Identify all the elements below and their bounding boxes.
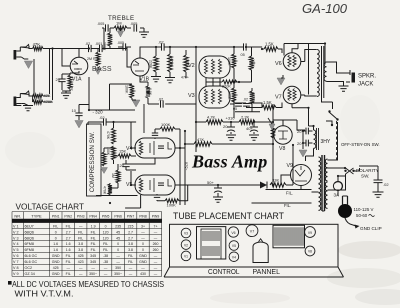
capacitor .02 comp xyxy=(102,118,136,125)
svg-text:20: 20 xyxy=(56,77,61,82)
svg-text:2.2K: 2.2K xyxy=(70,83,74,91)
power cord xyxy=(345,218,356,226)
power transformer primary xyxy=(319,157,321,210)
label COMPRESSION SW. xyxy=(89,131,96,192)
svg-text:SPKR.: SPKR. xyxy=(358,74,376,80)
svg-text:425: 425 xyxy=(78,254,84,258)
label .05 low xyxy=(233,107,237,111)
label FIL 1 xyxy=(286,191,293,196)
svg-text:-38: -38 xyxy=(103,260,108,264)
label 50-60 xyxy=(356,213,375,218)
svg-text:V6: V6 xyxy=(275,61,282,67)
capacitor 40 B+ xyxy=(250,122,258,134)
svg-text:V9: V9 xyxy=(308,231,312,235)
svg-text:FIL: FIL xyxy=(66,272,71,276)
svg-text:FIL: FIL xyxy=(91,242,96,246)
svg-text:OC2: OC2 xyxy=(25,266,33,270)
label 2.2K xyxy=(241,115,250,120)
wire B+ bus xyxy=(196,104,273,122)
svg-text:47K: 47K xyxy=(44,93,51,98)
wire OT bottom to switch xyxy=(322,98,333,109)
diode bias xyxy=(260,182,267,189)
resistor 47K low xyxy=(194,142,212,147)
svg-text:—: — xyxy=(116,260,120,264)
ground arrow below J1 xyxy=(21,57,32,69)
svg-text:PIN6: PIN6 xyxy=(114,214,122,218)
svg-text:100K: 100K xyxy=(167,203,177,208)
label .005 R xyxy=(130,22,137,26)
tube V2 xyxy=(199,56,230,78)
svg-text:1M: 1M xyxy=(116,21,122,26)
label V6 xyxy=(275,61,282,67)
jack J2 tip arrow xyxy=(20,91,29,95)
svg-text:100K: 100K xyxy=(251,59,255,68)
resistor 100K plate V3 xyxy=(232,82,237,118)
ground arrow between V6 V7 xyxy=(277,75,285,85)
svg-text:FIL: FIL xyxy=(128,254,133,258)
label .001 bus xyxy=(95,42,102,46)
wire lower coupling xyxy=(234,100,263,108)
svg-text:20: 20 xyxy=(120,163,125,168)
switch OFF-STBY-ON xyxy=(326,110,339,126)
resistor 470K comp2 xyxy=(108,183,112,196)
ground 40 B+ xyxy=(249,135,259,140)
svg-text:TUBE PLACEMENT CHART: TUBE PLACEMENT CHART xyxy=(173,211,284,222)
resistor 33K bias xyxy=(270,183,286,188)
label 47K low xyxy=(197,137,204,142)
svg-text:100K: 100K xyxy=(227,91,231,100)
svg-text:V8: V8 xyxy=(279,146,285,152)
chart output transformer xyxy=(197,227,226,259)
svg-text:220K: 220K xyxy=(149,60,153,69)
svg-text:FIL: FIL xyxy=(103,248,108,252)
label 100K pV3 xyxy=(227,91,231,100)
label 22K tail xyxy=(186,59,190,66)
label .05 top xyxy=(241,53,245,57)
wire OT secondary to jack xyxy=(327,62,351,85)
label 470K gV2 xyxy=(170,58,174,67)
resistor 1.5K to V6 xyxy=(262,47,282,53)
wire bias line xyxy=(185,145,293,185)
wire V6 plate xyxy=(301,50,317,62)
label 110-125 V xyxy=(354,207,374,212)
label 100K pV2 xyxy=(227,57,231,66)
svg-text:—: — xyxy=(154,236,158,240)
ground line cap xyxy=(359,166,384,197)
input jack J2 xyxy=(14,94,22,107)
chart tube V5 socket xyxy=(229,241,239,251)
svg-text:—: — xyxy=(104,272,108,276)
svg-text:0: 0 xyxy=(117,242,119,246)
svg-text:NR.: NR. xyxy=(14,213,21,218)
label 3A xyxy=(334,193,341,198)
capacitor .05 low xyxy=(234,104,242,107)
resistor 22K tail xyxy=(184,50,189,78)
wire feedback line xyxy=(148,98,196,104)
chart tube V9 socket xyxy=(305,227,316,238)
svg-text:V6: V6 xyxy=(231,231,235,235)
triode V1A xyxy=(70,57,88,75)
svg-text:FIL: FIL xyxy=(91,230,96,234)
ground 50 bias xyxy=(213,197,223,202)
label 40 B+ xyxy=(246,126,253,131)
ground 470K xyxy=(165,78,175,83)
label 100K V1B xyxy=(125,85,129,94)
ground below J2 xyxy=(16,104,33,111)
svg-text:1.5K: 1.5K xyxy=(265,42,274,47)
svg-text:V 3: V 3 xyxy=(13,236,19,240)
label 100K aV4 xyxy=(161,122,171,127)
wire FIL 2 xyxy=(252,202,312,204)
svg-text:V9: V9 xyxy=(287,163,293,169)
svg-text:215: 215 xyxy=(128,224,134,228)
svg-text:V2: V2 xyxy=(184,243,188,247)
svg-text:—: — xyxy=(79,224,83,228)
svg-text:—: — xyxy=(154,254,158,258)
label .02 low2 xyxy=(243,98,248,102)
svg-text:V 6: V 6 xyxy=(13,254,19,258)
svg-text:V 1: V 1 xyxy=(13,224,19,228)
svg-text:40+: 40+ xyxy=(246,126,253,131)
svg-text:.02: .02 xyxy=(85,42,90,46)
chart tube V8 socket xyxy=(305,246,315,256)
wire FIL 1 xyxy=(266,189,312,191)
power transformer secondary xyxy=(325,159,327,208)
resistor 1M comp xyxy=(116,164,120,188)
svg-text:ALL DC VOLTAGES MEASURED TO CH: ALL DC VOLTAGES MEASURED TO CHASSIS xyxy=(12,280,164,289)
svg-text:V 8: V 8 xyxy=(13,266,19,270)
wire J2 junction xyxy=(29,92,53,102)
wire treble top xyxy=(102,28,144,49)
chart tube V3 socket xyxy=(181,228,191,238)
resistor cathode V1B xyxy=(146,86,150,98)
wire comp bottom xyxy=(96,170,138,196)
svg-text:470K: 470K xyxy=(106,131,110,140)
resistor 100K comp xyxy=(112,146,116,164)
svg-text:—: — xyxy=(79,272,83,276)
ground V1A cathode xyxy=(61,91,71,98)
svg-text:20: 20 xyxy=(297,129,302,134)
svg-text:- 320: - 320 xyxy=(93,110,104,115)
svg-text:0: 0 xyxy=(142,248,144,252)
svg-text:1.9: 1.9 xyxy=(91,224,96,228)
resistor 1.5K to V7 xyxy=(262,103,282,110)
label .005 mid xyxy=(117,41,124,45)
wire choke to V9 xyxy=(306,108,314,161)
svg-text:GND: GND xyxy=(52,254,60,258)
choke 3HY xyxy=(309,126,319,152)
label 1M comp xyxy=(111,173,115,178)
svg-text:1.6: 1.6 xyxy=(53,242,58,246)
label 100K comp xyxy=(106,147,110,156)
wire V7 plate xyxy=(301,95,317,96)
label -320 xyxy=(93,110,104,115)
svg-text:6EU7: 6EU7 xyxy=(25,224,34,228)
svg-text:350~: 350~ xyxy=(89,272,97,276)
resistor 220K inter xyxy=(220,80,239,84)
svg-text:FIL: FIL xyxy=(66,254,71,258)
label V3 xyxy=(188,93,195,99)
svg-text:FIL: FIL xyxy=(66,260,71,264)
wire top coupling xyxy=(196,46,262,48)
resistor 4.7K xyxy=(206,120,223,125)
capacitor V4 top xyxy=(152,129,158,139)
jack J1 tip arrow xyxy=(20,45,29,49)
label 1.5K V6 xyxy=(265,42,274,47)
wire J1 to grid bus xyxy=(29,46,127,49)
capacitor 20 comp xyxy=(122,160,129,170)
svg-text:110-125 V: 110-125 V xyxy=(354,207,374,212)
svg-text:PIN4: PIN4 xyxy=(89,214,97,218)
resistor 15K comp xyxy=(114,154,137,158)
power plug xyxy=(338,196,352,218)
label 470+ xyxy=(181,76,189,80)
svg-text:PIN1: PIN1 xyxy=(52,214,60,218)
svg-text:120: 120 xyxy=(103,236,109,240)
svg-text:470K: 470K xyxy=(103,186,107,195)
svg-text:2.7: 2.7 xyxy=(128,236,133,240)
svg-text:425: 425 xyxy=(53,266,59,270)
label 47K (J1) xyxy=(33,42,41,47)
label 220K gV2 xyxy=(149,60,153,69)
svg-text:GND: GND xyxy=(139,254,147,258)
label 20 f2 xyxy=(297,141,302,146)
label V1A xyxy=(72,77,82,83)
svg-text:V 5: V 5 xyxy=(13,248,19,252)
label 47K (J2) xyxy=(44,93,51,98)
resistor 100K below V5 xyxy=(157,185,188,203)
chart power transformer xyxy=(273,225,305,248)
svg-text:6BQ6: 6BQ6 xyxy=(25,230,34,234)
label 1M xyxy=(116,21,122,26)
wire V1B plate xyxy=(140,47,158,58)
svg-text:.02: .02 xyxy=(243,98,248,102)
svg-text:GND CLIP: GND CLIP xyxy=(360,226,382,231)
svg-text:50+: 50+ xyxy=(207,180,214,185)
svg-text:—: — xyxy=(154,260,158,264)
capacitor 10 bias xyxy=(75,105,89,121)
label 10 bias xyxy=(72,108,77,113)
label 470K comp2 xyxy=(103,186,107,195)
svg-text:WITH V.T.V.M.: WITH V.T.V.M. xyxy=(15,289,74,299)
wire V4 connections xyxy=(126,122,185,205)
resistor 2.2K (V1A cathode) xyxy=(62,71,79,91)
svg-text:—: — xyxy=(91,266,95,270)
svg-text:.02: .02 xyxy=(99,115,105,120)
svg-text:3.8: 3.8 xyxy=(128,242,133,246)
svg-text:V5: V5 xyxy=(232,244,236,248)
svg-text:PIN9: PIN9 xyxy=(152,214,160,218)
wire comp top xyxy=(88,122,102,125)
potentiometer BASS 2M xyxy=(96,49,100,67)
tube V9 xyxy=(291,165,312,186)
chart tube V1 socket xyxy=(181,251,191,261)
label TREBLE xyxy=(108,15,134,22)
ground 220K xyxy=(151,77,161,82)
output transformer primary xyxy=(317,50,319,97)
ground treble xyxy=(139,28,149,37)
svg-text:GA-100: GA-100 xyxy=(302,1,348,16)
label V4 xyxy=(126,146,132,152)
svg-text:47K: 47K xyxy=(197,137,204,142)
wire input loop xyxy=(34,49,53,101)
svg-text:V3: V3 xyxy=(188,93,195,99)
svg-text:47K: 47K xyxy=(33,42,41,47)
title GA-100 xyxy=(302,1,348,16)
label SPKR. xyxy=(358,74,376,80)
label V8 xyxy=(279,146,285,152)
capacitor 20 f2 xyxy=(303,131,313,149)
tube V8 xyxy=(274,126,292,144)
svg-text:PIN2: PIN2 xyxy=(64,214,72,218)
svg-text:6BQ6: 6BQ6 xyxy=(25,236,34,240)
capacitor 20 B+ xyxy=(227,122,235,134)
svg-text:6L6 GC: 6L6 GC xyxy=(25,254,38,258)
resistor 100K treble slope xyxy=(108,28,113,49)
svg-text:OFF-STBY-ON SW.: OFF-STBY-ON SW. xyxy=(341,142,380,147)
svg-text:GND: GND xyxy=(52,272,60,276)
svg-text:.02: .02 xyxy=(158,40,164,45)
capacitor .001 (bus) xyxy=(100,45,103,52)
svg-text:0: 0 xyxy=(55,236,57,240)
svg-text:Bass Amp: Bass Amp xyxy=(191,152,267,172)
label -320 rot xyxy=(184,161,189,170)
bass wiper arrow xyxy=(95,67,102,75)
svg-text:SW.: SW. xyxy=(361,174,369,179)
label .02 line xyxy=(383,182,389,187)
svg-text:345: 345 xyxy=(90,260,96,264)
label 6.8K xyxy=(148,88,152,96)
label 1.5K V7 xyxy=(263,100,272,105)
label OFF-STBY-ON SW. xyxy=(341,142,380,147)
capacitor 20 f1 xyxy=(303,128,313,135)
title Bass Amp xyxy=(191,152,267,172)
label 100K bV5 xyxy=(167,203,177,208)
svg-text:CONTROL: CONTROL xyxy=(208,267,240,276)
svg-text:3.8: 3.8 xyxy=(78,248,83,252)
resistor 220K grid V2 xyxy=(154,47,159,76)
wire bias rail xyxy=(89,77,135,110)
capacitor .02 (bus) xyxy=(89,45,92,52)
svg-text:FIL.: FIL. xyxy=(286,191,293,196)
svg-text:—: — xyxy=(104,266,108,270)
tube V6 xyxy=(283,53,301,71)
svg-text:470+: 470+ xyxy=(181,76,189,80)
label 100K slope xyxy=(103,42,107,51)
svg-text:GND: GND xyxy=(52,260,60,264)
svg-text:FIL.: FIL. xyxy=(284,203,291,208)
label 470K (J2) xyxy=(44,99,53,104)
svg-text:2.7: 2.7 xyxy=(66,236,71,240)
capacitor .02 feedback xyxy=(161,100,164,107)
output transformer secondary xyxy=(324,62,326,81)
label BASS xyxy=(92,66,112,73)
chart labels xyxy=(208,267,280,276)
resistor 470K (J2) xyxy=(33,96,43,104)
wire V1B grid xyxy=(127,47,131,67)
label 20 (V1A cathode) xyxy=(56,77,61,82)
resistor 100K after cap xyxy=(239,47,254,82)
svg-text:—: — xyxy=(79,266,83,270)
capacitor .05 top xyxy=(244,43,247,50)
label V1B xyxy=(140,77,150,83)
wire xfmr right top xyxy=(328,122,346,168)
label 100K ac xyxy=(251,59,255,68)
svg-text:.001: .001 xyxy=(95,42,102,46)
label 50+ xyxy=(207,180,214,185)
svg-text:350: 350 xyxy=(115,266,121,270)
svg-text:BASS: BASS xyxy=(92,66,112,73)
svg-text:20: 20 xyxy=(297,141,302,146)
svg-text:1.5K: 1.5K xyxy=(263,100,272,105)
svg-text:COMPRESSION SW.: COMPRESSION SW. xyxy=(89,131,96,192)
tube chart frame xyxy=(164,211,344,277)
svg-text:05: 05 xyxy=(241,53,245,57)
svg-text:50-60: 50-60 xyxy=(356,213,368,218)
svg-text:V 7: V 7 xyxy=(13,260,19,264)
svg-text:33K: 33K xyxy=(272,178,279,183)
switch polarity xyxy=(344,168,359,174)
label V2 xyxy=(188,63,195,69)
svg-text:7+: 7+ xyxy=(154,224,158,228)
svg-text:V7: V7 xyxy=(275,95,282,101)
output transformer core xyxy=(322,46,324,98)
label .02 V1B out xyxy=(158,40,164,45)
svg-text:FIL: FIL xyxy=(78,230,83,234)
svg-text:V1: V1 xyxy=(184,255,188,259)
label V5 xyxy=(126,182,132,188)
resistor 100K lower2 xyxy=(235,88,260,112)
svg-text:V 9: V 9 xyxy=(13,272,19,276)
svg-text:4.7K: 4.7K xyxy=(207,115,216,120)
svg-text:350~: 350~ xyxy=(114,272,122,276)
svg-text:2.7: 2.7 xyxy=(66,230,71,234)
label 2.2K (V1A) xyxy=(70,83,74,91)
label 20 f1 xyxy=(297,129,302,134)
wire V6 top loop xyxy=(284,44,325,95)
chart capacitor can xyxy=(253,239,268,263)
resistor 100K plate V2 xyxy=(230,47,239,82)
svg-text:PANNEL: PANNEL xyxy=(253,267,281,276)
wire polarity cap xyxy=(377,166,379,180)
label POLARITY xyxy=(356,168,379,173)
footnote line 2 xyxy=(15,289,74,299)
resistor 47K (J1) xyxy=(33,47,43,51)
wire V7 bottom xyxy=(292,104,309,108)
svg-text:3A: 3A xyxy=(334,193,341,198)
svg-text:V1A: V1A xyxy=(72,77,82,83)
svg-text:-320: -320 xyxy=(184,161,189,170)
label .02 feedback xyxy=(158,98,163,102)
svg-text:100K: 100K xyxy=(125,85,129,94)
svg-text:—: — xyxy=(116,254,120,258)
svg-text:0: 0 xyxy=(55,230,57,234)
capacitor .02 (V1B out) xyxy=(158,43,196,50)
svg-text:100K: 100K xyxy=(161,122,171,127)
svg-text:V3: V3 xyxy=(184,232,188,236)
svg-text:0: 0 xyxy=(117,248,119,252)
ground arrow below 100K V1B xyxy=(132,100,140,107)
svg-text:—: — xyxy=(129,272,133,276)
svg-text:V8: V8 xyxy=(308,250,312,254)
wire V1B cathode net xyxy=(140,76,148,86)
svg-text:JACK: JACK xyxy=(358,82,373,88)
svg-text:1.6: 1.6 xyxy=(66,242,71,246)
svg-text:PIN7: PIN7 xyxy=(127,214,135,218)
wire V8 top xyxy=(273,120,305,130)
svg-text:.02: .02 xyxy=(158,98,163,102)
label V9 xyxy=(287,163,293,169)
